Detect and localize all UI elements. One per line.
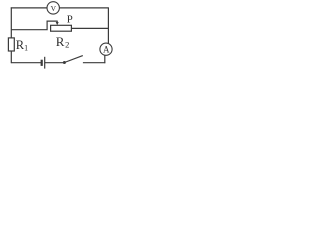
wire middle to slider <box>11 21 57 30</box>
battery <box>42 57 45 69</box>
wire bottom right <box>83 62 105 64</box>
svg-text:P: P <box>67 14 73 26</box>
wire bottom left <box>11 62 41 64</box>
svg-text:A: A <box>103 44 110 54</box>
resistor R1 <box>8 38 14 51</box>
label P <box>67 14 73 26</box>
label R2 <box>56 34 70 49</box>
slider arrow P <box>56 21 59 26</box>
wire right rail <box>107 8 109 45</box>
wire bottom middle <box>45 62 65 64</box>
wire R2 right lead <box>71 27 108 29</box>
svg-text:V: V <box>51 4 57 13</box>
wire left rail <box>10 7 12 63</box>
wire top <box>11 7 109 9</box>
voltmeter V <box>47 2 59 14</box>
label R1 <box>16 38 28 52</box>
switch <box>63 56 83 64</box>
rheostat R2 <box>51 25 72 31</box>
ammeter A <box>100 43 112 55</box>
wire ammeter bottom lead <box>104 54 106 64</box>
